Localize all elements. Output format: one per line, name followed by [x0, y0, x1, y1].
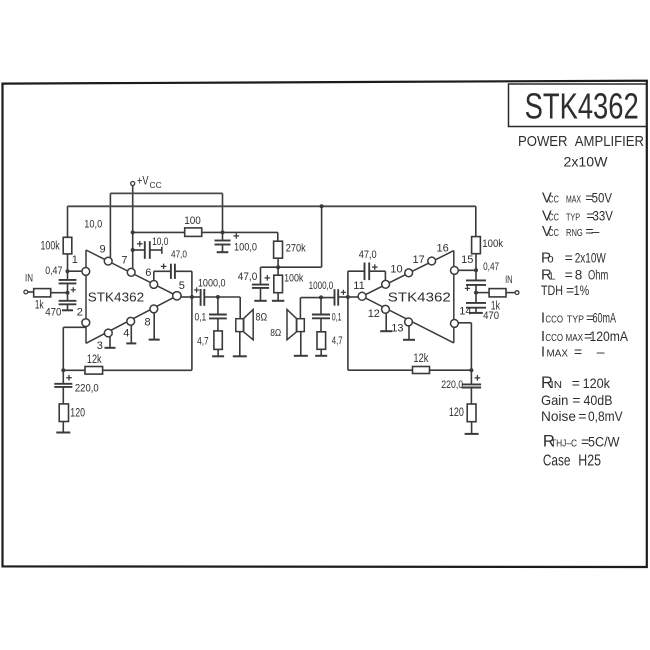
svg-text:120k: 120k [583, 376, 611, 391]
svg-text:4: 4 [123, 328, 129, 340]
svg-text:0,1: 0,1 [332, 312, 342, 324]
svg-text:IN: IN [551, 379, 563, 391]
svg-text:50V: 50V [592, 189, 613, 205]
svg-text:CC: CC [150, 180, 162, 190]
svg-text:CCO: CCO [545, 314, 563, 326]
svg-text:120: 120 [449, 407, 464, 419]
svg-text:1: 1 [72, 254, 78, 266]
svg-text:STK4362: STK4362 [525, 86, 639, 127]
svg-text:STK4362: STK4362 [388, 289, 451, 304]
svg-text:12k: 12k [413, 353, 428, 365]
svg-text:10: 10 [390, 264, 402, 276]
svg-text:10,0: 10,0 [152, 236, 168, 248]
svg-text:Ohm: Ohm [588, 268, 608, 283]
svg-text:IN: IN [505, 274, 513, 286]
svg-text:4,7: 4,7 [332, 335, 343, 347]
svg-text:470: 470 [45, 307, 61, 319]
svg-text:TDH: TDH [541, 283, 563, 298]
svg-text:8: 8 [145, 317, 151, 329]
svg-text:33V: 33V [593, 207, 614, 223]
svg-text:I: I [541, 345, 545, 361]
svg-text:CC: CC [548, 193, 559, 205]
svg-text:=: = [565, 267, 573, 283]
svg-text:2x10W: 2x10W [575, 251, 606, 266]
svg-text:2x10W: 2x10W [564, 153, 609, 169]
svg-text:THJ–C: THJ–C [551, 437, 577, 449]
svg-text:L: L [550, 272, 556, 283]
svg-text:1000,0: 1000,0 [309, 280, 334, 292]
svg-text:MAX: MAX [547, 348, 569, 360]
svg-text:Case: Case [543, 452, 571, 469]
svg-text:MAX: MAX [566, 333, 584, 344]
svg-text:47,0: 47,0 [171, 249, 187, 261]
svg-text:o: o [547, 254, 553, 266]
svg-text:IN: IN [25, 272, 33, 284]
svg-text:MAX: MAX [566, 194, 581, 205]
svg-text:12k: 12k [87, 354, 102, 366]
svg-text:17: 17 [413, 254, 425, 266]
svg-text:H25: H25 [578, 452, 601, 469]
svg-text:1k: 1k [35, 299, 44, 311]
svg-text:14: 14 [459, 306, 471, 318]
svg-text:6: 6 [145, 267, 151, 279]
svg-text:270k: 270k [286, 243, 306, 255]
svg-text:Noise: Noise [541, 408, 576, 424]
svg-text:60mA: 60mA [593, 311, 617, 326]
svg-text:10,0: 10,0 [84, 218, 102, 230]
svg-text:2: 2 [77, 307, 83, 319]
svg-text:RNG: RNG [566, 228, 583, 239]
svg-text:1000,0: 1000,0 [198, 278, 226, 290]
svg-text:15: 15 [461, 254, 473, 266]
svg-text:8Ω: 8Ω [256, 312, 268, 324]
svg-text:STK4362: STK4362 [88, 289, 144, 304]
svg-text:4,7: 4,7 [197, 336, 209, 348]
svg-text:120mA: 120mA [590, 329, 629, 344]
svg-text:CC: CC [548, 227, 559, 239]
svg-text:47,0: 47,0 [238, 271, 257, 283]
svg-text:100k: 100k [41, 240, 60, 252]
svg-text:1%: 1% [574, 283, 590, 298]
svg-text:5: 5 [179, 280, 185, 292]
svg-text:100k: 100k [482, 238, 503, 250]
svg-text:120: 120 [70, 408, 85, 420]
svg-text:11: 11 [353, 280, 364, 292]
svg-text:0,47: 0,47 [45, 265, 62, 277]
svg-text:–: – [597, 344, 605, 360]
svg-text:0,47: 0,47 [483, 261, 499, 273]
svg-text:CCO: CCO [545, 332, 563, 344]
svg-text:CC: CC [548, 211, 559, 223]
svg-text:TYP: TYP [567, 315, 584, 326]
svg-text:100,0: 100,0 [234, 242, 257, 254]
svg-text:TYP: TYP [566, 212, 580, 223]
svg-text:16: 16 [437, 242, 449, 254]
svg-text:100: 100 [184, 215, 201, 227]
svg-text:5C/W: 5C/W [588, 434, 620, 449]
svg-text:+V: +V [137, 176, 149, 188]
svg-text:40dB: 40dB [584, 393, 613, 408]
svg-text:7: 7 [121, 255, 127, 267]
svg-text:3: 3 [97, 340, 103, 352]
svg-text:220,0: 220,0 [441, 379, 463, 391]
svg-text:47,0: 47,0 [359, 249, 377, 261]
svg-text:9: 9 [100, 243, 106, 255]
svg-text:13: 13 [391, 322, 403, 334]
svg-text:=: = [572, 375, 580, 391]
svg-text:470: 470 [483, 310, 499, 322]
svg-text:100k: 100k [284, 273, 304, 285]
svg-text:=: = [572, 392, 580, 408]
svg-text:220,0: 220,0 [75, 383, 99, 395]
svg-text:8: 8 [575, 268, 583, 283]
svg-text:POWER AMPLIFIER: POWER AMPLIFIER [518, 133, 644, 150]
svg-text:12: 12 [368, 308, 380, 320]
svg-text:=: = [574, 344, 582, 360]
svg-text:8Ω: 8Ω [270, 327, 281, 339]
svg-text:=: = [565, 250, 573, 266]
svg-text:0,1: 0,1 [195, 311, 207, 323]
svg-text:0,8mV: 0,8mV [588, 409, 623, 424]
svg-text:=: = [578, 408, 586, 424]
svg-text:–: – [592, 223, 600, 239]
svg-text:Gain: Gain [541, 392, 568, 408]
